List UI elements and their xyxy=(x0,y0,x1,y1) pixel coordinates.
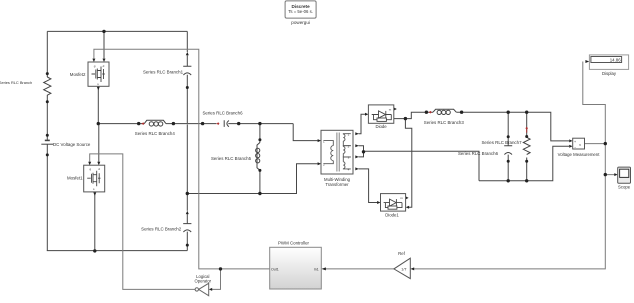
svg-text:Out1: Out1 xyxy=(271,267,279,271)
svg-text:Series RLC Branch5: Series RLC Branch5 xyxy=(211,156,252,161)
svg-text:Series RLC Branch3: Series RLC Branch3 xyxy=(424,120,465,125)
svg-text:PWM Controller: PWM Controller xyxy=(278,240,310,245)
svg-text:powergui: powergui xyxy=(291,20,310,25)
svg-text:v: v xyxy=(579,143,581,147)
svg-text:Operator: Operator xyxy=(195,279,212,284)
svg-text:DC Voltage Source: DC Voltage Source xyxy=(53,142,91,147)
svg-text:In1: In1 xyxy=(314,267,319,271)
svg-text:14.86: 14.86 xyxy=(610,58,622,63)
svg-text:Series RLC Branch4: Series RLC Branch4 xyxy=(135,131,176,136)
svg-text:+: + xyxy=(574,140,576,144)
svg-text:Voltage Measurement: Voltage Measurement xyxy=(558,152,601,157)
svg-text:Series RLC Branch2: Series RLC Branch2 xyxy=(141,227,182,232)
svg-text:Mosfet2: Mosfet2 xyxy=(70,72,86,77)
svg-text:Ts = 5e-06 s.: Ts = 5e-06 s. xyxy=(288,9,313,14)
svg-text:Mosfet1: Mosfet1 xyxy=(67,176,83,181)
svg-text:Series RLC Branch7: Series RLC Branch7 xyxy=(481,140,522,145)
svg-text:Series RLC Branch6: Series RLC Branch6 xyxy=(458,151,499,156)
svg-text:Transformer: Transformer xyxy=(325,182,349,187)
svg-text:Series RLC Branch6: Series RLC Branch6 xyxy=(202,110,243,115)
svg-text:Display: Display xyxy=(602,71,617,76)
svg-text:Diode1: Diode1 xyxy=(385,213,399,218)
svg-text:Scope: Scope xyxy=(618,184,631,189)
svg-text:Diode: Diode xyxy=(375,124,387,129)
svg-text:Series RLC Branch: Series RLC Branch xyxy=(0,80,32,85)
svg-text:Series RLC Branch1: Series RLC Branch1 xyxy=(143,70,184,75)
svg-text:Ref: Ref xyxy=(398,251,405,256)
svg-text:1/T: 1/T xyxy=(401,268,407,272)
